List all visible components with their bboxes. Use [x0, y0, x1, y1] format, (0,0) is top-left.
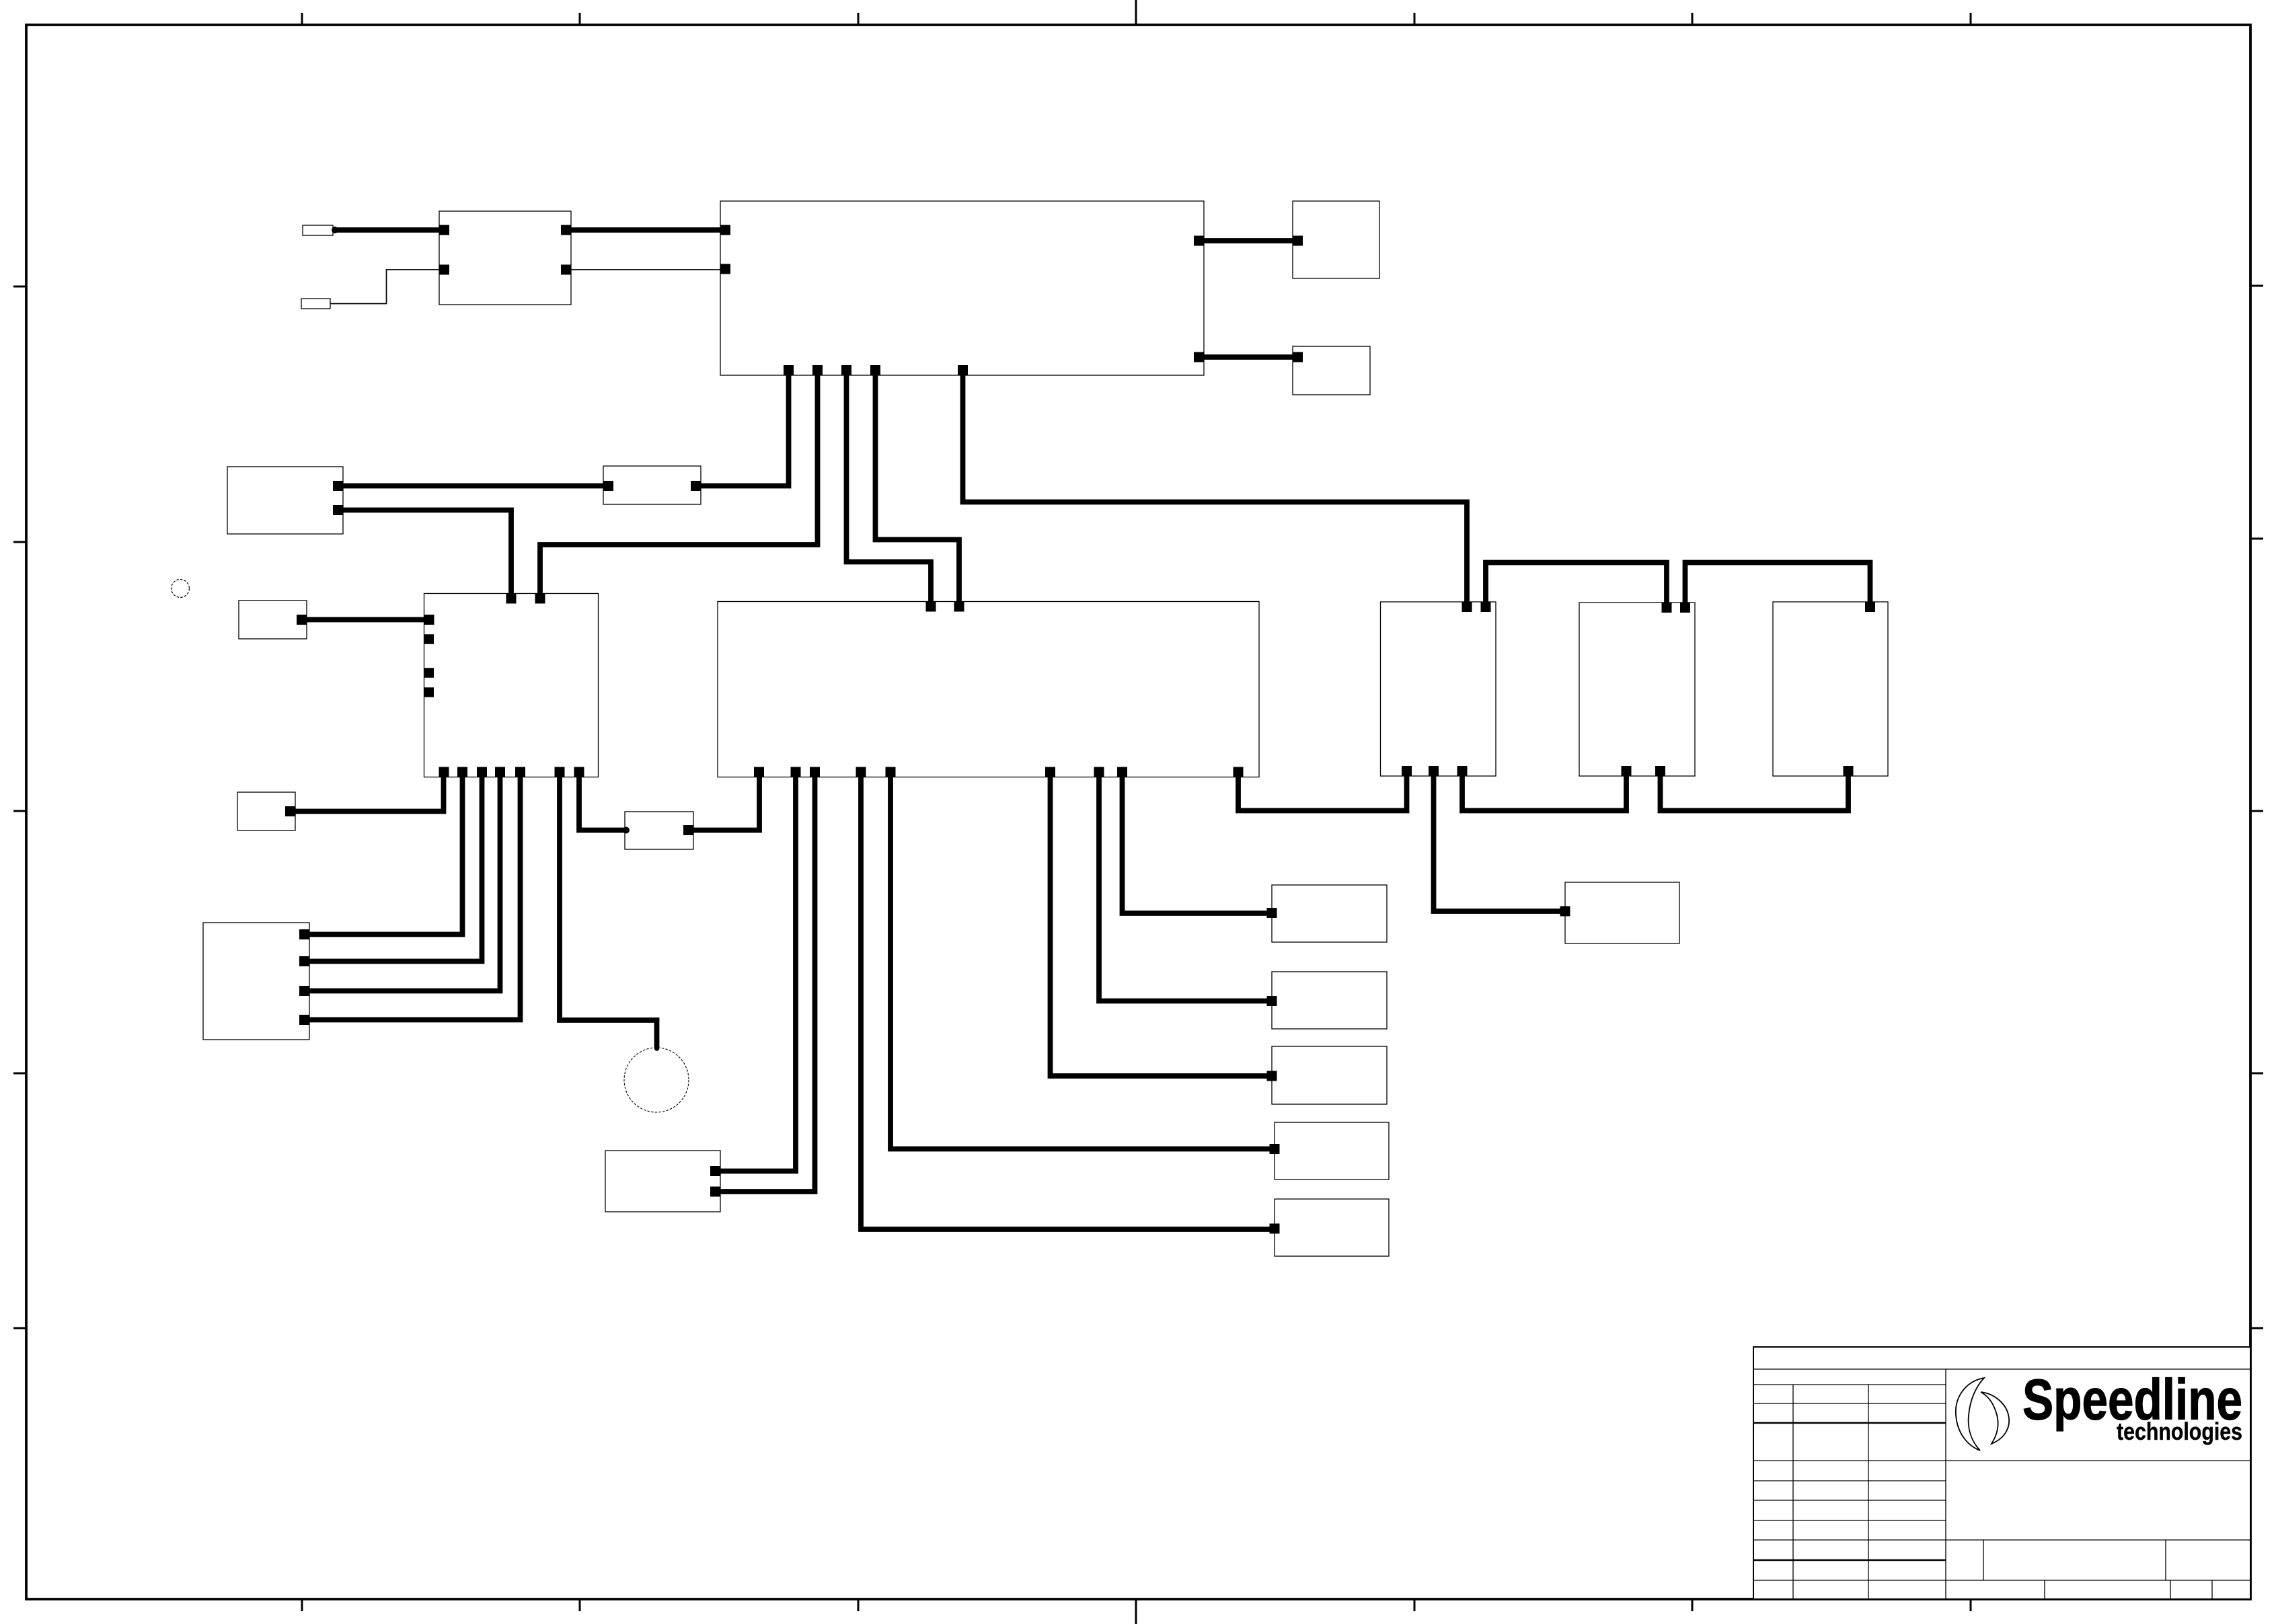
- svg-text:technologies: technologies: [2117, 1418, 2242, 1445]
